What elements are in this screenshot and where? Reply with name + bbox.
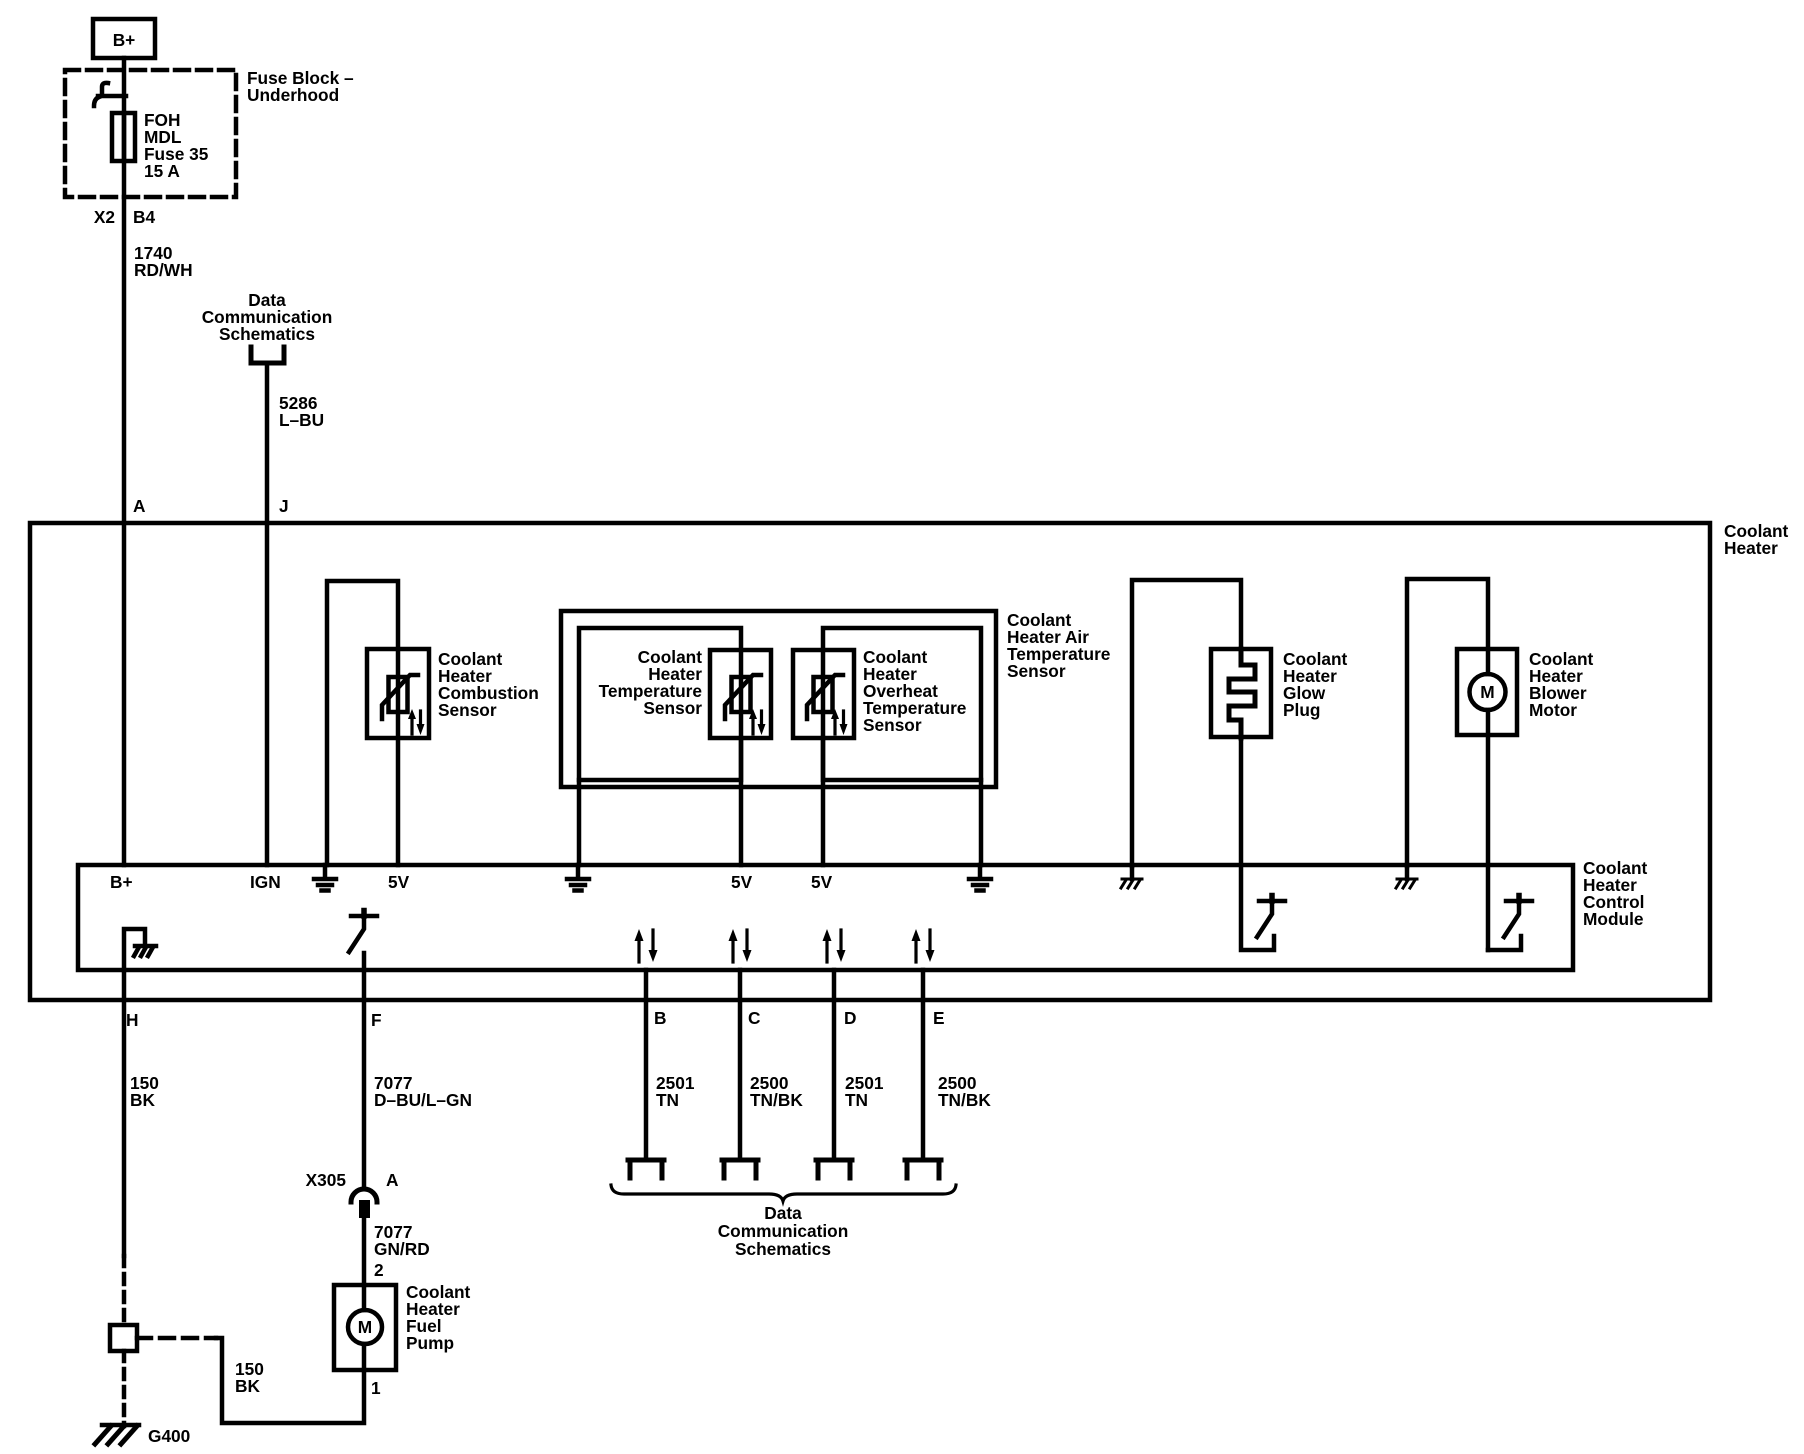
svg-text:Sensor: Sensor bbox=[643, 698, 702, 718]
svg-text:E: E bbox=[933, 1008, 945, 1028]
svg-text:BK: BK bbox=[130, 1090, 155, 1110]
svg-text:B+: B+ bbox=[113, 30, 136, 50]
svg-text:X305: X305 bbox=[306, 1170, 347, 1190]
svg-text:B: B bbox=[654, 1008, 666, 1028]
svg-text:Schematics: Schematics bbox=[219, 324, 315, 344]
svg-text:Pump: Pump bbox=[406, 1333, 454, 1353]
svg-text:M: M bbox=[1480, 682, 1494, 702]
svg-text:15 A: 15 A bbox=[144, 161, 180, 181]
svg-text:H: H bbox=[126, 1010, 138, 1030]
svg-text:D–BU/L–GN: D–BU/L–GN bbox=[374, 1090, 472, 1110]
svg-text:IGN: IGN bbox=[250, 872, 281, 892]
svg-text:GN/RD: GN/RD bbox=[374, 1239, 430, 1259]
svg-text:J: J bbox=[279, 496, 289, 516]
svg-text:Motor: Motor bbox=[1529, 700, 1577, 720]
svg-text:Heater: Heater bbox=[1724, 538, 1778, 558]
svg-text:Schematics: Schematics bbox=[735, 1239, 831, 1259]
svg-text:G400: G400 bbox=[148, 1426, 190, 1446]
svg-text:RD/WH: RD/WH bbox=[134, 260, 193, 280]
svg-text:B+: B+ bbox=[110, 872, 133, 892]
svg-text:A: A bbox=[386, 1170, 399, 1190]
svg-text:TN/BK: TN/BK bbox=[938, 1090, 991, 1110]
svg-text:TN: TN bbox=[656, 1090, 679, 1110]
svg-text:5V: 5V bbox=[731, 872, 753, 892]
svg-text:Module: Module bbox=[1583, 909, 1644, 929]
svg-text:TN: TN bbox=[845, 1090, 868, 1110]
svg-text:X2: X2 bbox=[94, 207, 115, 227]
svg-text:BK: BK bbox=[235, 1376, 260, 1396]
svg-text:M: M bbox=[358, 1317, 372, 1337]
svg-text:F: F bbox=[371, 1010, 382, 1030]
svg-text:Data: Data bbox=[764, 1203, 802, 1223]
svg-text:Sensor: Sensor bbox=[863, 715, 922, 735]
svg-text:Underhood: Underhood bbox=[247, 85, 339, 105]
svg-text:5V: 5V bbox=[388, 872, 410, 892]
svg-text:A: A bbox=[133, 496, 146, 516]
svg-text:Plug: Plug bbox=[1283, 700, 1320, 720]
svg-text:D: D bbox=[844, 1008, 856, 1028]
svg-text:Sensor: Sensor bbox=[1007, 661, 1066, 681]
svg-text:Communication: Communication bbox=[718, 1221, 849, 1241]
svg-text:L–BU: L–BU bbox=[279, 410, 324, 430]
svg-text:C: C bbox=[748, 1008, 760, 1028]
svg-text:2: 2 bbox=[374, 1260, 384, 1280]
svg-text:TN/BK: TN/BK bbox=[750, 1090, 803, 1110]
svg-text:5V: 5V bbox=[811, 872, 833, 892]
svg-text:Sensor: Sensor bbox=[438, 700, 497, 720]
svg-text:1: 1 bbox=[371, 1378, 381, 1398]
svg-text:B4: B4 bbox=[133, 207, 155, 227]
